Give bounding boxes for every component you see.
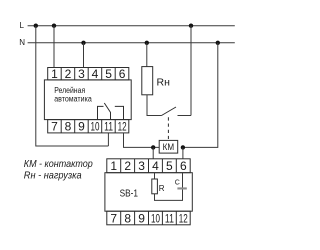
svg-text:7: 7 — [110, 212, 117, 226]
mechanical link dashed (contact to KM coil) — [167, 117, 169, 139]
svg-text:3: 3 — [138, 159, 145, 173]
wire R bottom to capacitor branch — [155, 173, 183, 201]
wire L to relay terminal 1 — [53, 26, 55, 68]
KM power contact blade — [162, 107, 177, 116]
KM power contact fixed side — [178, 115, 192, 117]
wire KM right junction to SB-1 terminal 6 — [182, 147, 184, 158]
svg-text:6: 6 — [180, 159, 187, 173]
svg-text:8: 8 — [65, 119, 72, 133]
relay bottom terminal row cells 7-12 — [48, 120, 129, 133]
junction on L (terminal 1 wire) — [52, 24, 56, 28]
wire N to relay terminal 3 — [83, 43, 85, 68]
wire KM left junction to SB-1 terminal 4 — [152, 147, 154, 158]
junction on N (terminal 3 wire) — [81, 41, 85, 45]
SB-1 unit body — [105, 173, 192, 212]
svg-text:10: 10 — [91, 119, 100, 133]
svg-text:12: 12 — [118, 119, 127, 133]
relay bottom terminal numbers 7-12 — [51, 119, 127, 133]
relay top terminal numbers 1-6 — [51, 67, 126, 81]
svg-text:2: 2 — [65, 67, 72, 81]
svg-text:1: 1 — [110, 159, 117, 173]
svg-text:3: 3 — [78, 67, 85, 81]
bus L — [28, 25, 235, 27]
svg-text:R: R — [159, 184, 165, 193]
svg-text:10: 10 — [151, 212, 160, 226]
wire N to resistor Rn — [146, 43, 148, 67]
SB-1 top terminal numbers 1-6 — [110, 159, 187, 173]
relay output contact: blade from terminal 11 — [104, 103, 110, 120]
junction KM right — [181, 145, 185, 149]
relay output contact: post from terminal 12 — [115, 106, 124, 119]
contactor coil KM box — [159, 140, 178, 153]
wire L to KM contact — [190, 26, 192, 116]
junction on L (bypass wire) — [34, 24, 38, 28]
svg-text:4: 4 — [92, 67, 99, 81]
relay top terminal row cells 1-6 — [48, 68, 129, 80]
wire SB-1 terminal 4 to resistor R — [154, 173, 156, 179]
SB-1 bottom terminal row cells 7-12 — [107, 211, 190, 225]
svg-text:4: 4 — [152, 159, 159, 173]
svg-text:автоматика: автоматика — [54, 94, 92, 103]
svg-text:2: 2 — [124, 159, 131, 173]
SB-1 bottom terminal numbers 7-12 — [110, 212, 188, 226]
svg-text:C: C — [175, 180, 180, 187]
wire relay terminal 11 stub — [107, 133, 109, 146]
svg-text:5: 5 — [105, 67, 112, 81]
junction on L (contact wire) — [189, 24, 193, 28]
svg-text:L: L — [20, 21, 25, 30]
resistor R (snubber) — [152, 179, 158, 194]
relay output contact: post from terminal 10 — [98, 106, 104, 119]
wire L to relay terminal 11 (left bypass) — [36, 26, 109, 146]
svg-text:КМ - контактор: КМ - контактор — [24, 158, 93, 170]
bus N — [28, 42, 235, 44]
wire Rn bottom to contact pivot — [147, 95, 162, 116]
svg-text:9: 9 — [138, 212, 145, 226]
junction on N (Rn wire) — [145, 41, 149, 45]
svg-text:Rн: Rн — [157, 76, 171, 88]
svg-text:8: 8 — [124, 212, 131, 226]
SB-1 top terminal row cells 1-6 — [107, 159, 190, 173]
svg-text:6: 6 — [119, 67, 126, 81]
svg-text:Rн - нагрузка: Rн - нагрузка — [24, 170, 82, 182]
junction KM left — [151, 145, 155, 149]
svg-text:11: 11 — [165, 212, 174, 226]
svg-text:5: 5 — [166, 159, 173, 173]
svg-text:SB-1: SB-1 — [120, 188, 139, 200]
svg-text:9: 9 — [78, 119, 85, 133]
svg-text:1: 1 — [51, 67, 58, 81]
svg-text:7: 7 — [51, 119, 58, 133]
resistor Rn — [142, 67, 153, 95]
capacitor C (snubber, grey plate bar) — [177, 187, 186, 189]
junction on N (KM coil wire) — [216, 41, 220, 45]
wire N to KM coil right — [183, 43, 218, 148]
svg-text:12: 12 — [179, 212, 188, 226]
relay automation unit body — [44, 80, 131, 120]
wire relay terminal 12 to KM coil left — [124, 133, 160, 148]
svg-text:КМ: КМ — [163, 142, 175, 152]
svg-text:11: 11 — [104, 119, 113, 133]
svg-text:N: N — [19, 38, 25, 47]
